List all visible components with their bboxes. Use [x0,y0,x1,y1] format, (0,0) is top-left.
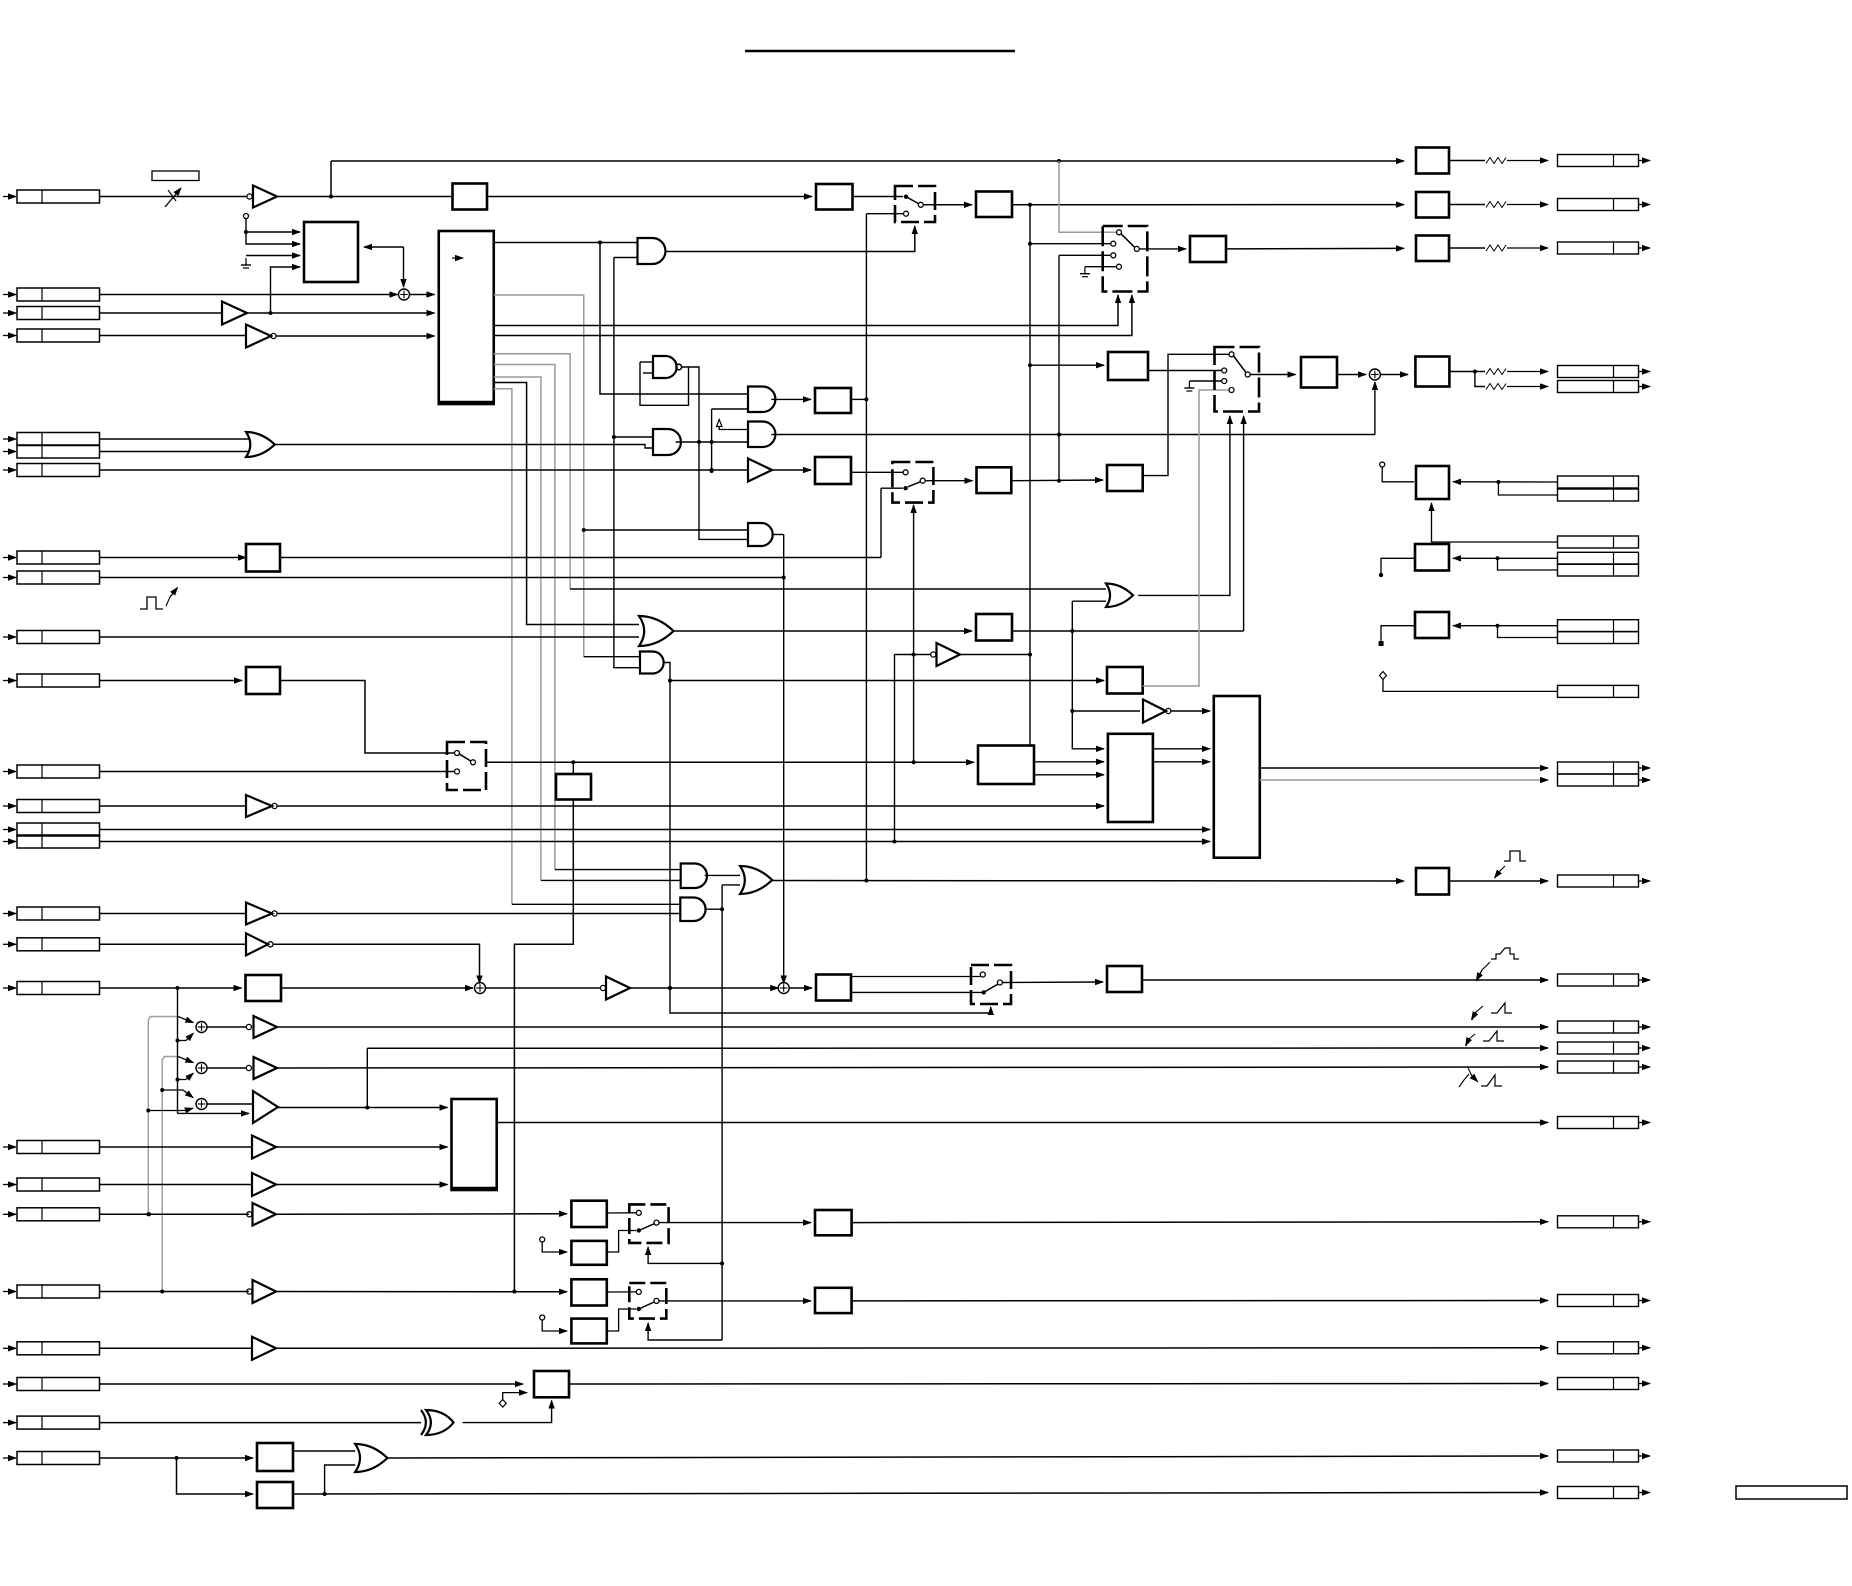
input connector IN10 [3,636,16,638]
diamond terminal J [499,1400,506,1408]
input connector IN8 [3,557,16,559]
output connector TPC3a [1558,620,1639,632]
and gate A10 [680,898,705,922]
input connector IN15 [3,841,16,843]
switch S0 p1 [455,751,460,756]
wire blockB o7 gray [494,377,541,880]
output connector O-4a [1558,366,1639,378]
box row8 [246,544,280,572]
box S1b [976,192,1012,218]
vertical S3 ctrl2 [1243,416,1245,631]
input connector IN26 [3,1457,16,1459]
wire row11 in [100,680,243,682]
gray feed 2 [162,1057,178,1292]
wire row7 in [100,469,749,471]
switch S2 common [1134,246,1139,251]
inverter I1 bubble [271,333,276,338]
buffer B23 [252,1337,276,1360]
wire row1 in [100,196,248,198]
arrow into sum1 upper [178,1017,193,1023]
output connector TPC1b [1558,489,1639,501]
wire blockB o1 [494,242,638,244]
wire row1 c [853,196,904,198]
block M1 [1108,734,1153,822]
input connector IN23 [3,1347,16,1349]
wire S2 p1 gray [1059,161,1116,232]
wire o2 branch AND5 [584,529,748,531]
diamond terminal TP4 [1380,672,1387,680]
wire TP1 stub [1382,467,1414,482]
wire F3 out [607,1291,637,1293]
gray feed 1 [148,1017,178,1215]
block B [439,231,494,404]
switch S3 p1 [1229,352,1234,357]
box OP [1416,868,1449,895]
wire o6 to A7 [555,869,681,871]
switch S2 p2 [1111,241,1116,246]
wire SW5 out [659,1300,811,1302]
wire P1 out [277,1026,1548,1028]
wire to box T [1030,364,1104,366]
inverter IP1 [254,1016,278,1038]
wire o2 to A6 [584,656,640,658]
or gate O2 [639,616,674,646]
and gate A8 [748,422,775,448]
nand N1 in2 stub [643,372,653,374]
wire o5 to OR5 [570,588,1106,590]
box G1 [815,1210,852,1235]
output connector O-2 [1558,199,1639,211]
wire row21 out [276,1213,567,1216]
wire TP2 right b [1498,558,1558,570]
clock symbol A8 [717,420,723,427]
inverter IP2 bubble [246,1065,251,1070]
wire row22 out [276,1291,567,1293]
and gate A7 [681,864,707,889]
legend box [1736,1486,1847,1499]
nand N1 out wire [682,367,748,539]
wire blockB o8 [494,383,639,625]
output connector TPC4 [1558,685,1639,697]
switch S3 p2 [1222,368,1227,373]
output connector O-bc [1558,1117,1639,1129]
wire I5 out [1171,710,1210,712]
wire row22 in [100,1291,250,1293]
switch S2 p1 [1117,230,1122,235]
switch S6 box [892,462,933,503]
wire row11 out [280,681,455,754]
wire B5 in [895,654,931,656]
switch S3 p3 [1222,379,1227,384]
vertical O2 fanout [1072,601,1104,749]
output connector O-p [1558,875,1639,887]
wire TP3 right b [1498,626,1558,638]
wire P3 to buf [207,1103,253,1105]
wire A2 out [676,441,749,443]
inverter I16 [246,903,272,925]
inverter I0 bubble [247,194,252,199]
wire OP out [1449,880,1548,882]
saw icon 2 [1483,1031,1504,1041]
switch S7 lever [984,984,998,992]
wire row2 to blockB [410,294,435,296]
wire FA out [293,1450,355,1452]
wire G1 out [852,1221,1548,1224]
output connector TPC1c [1558,536,1639,548]
wire blockB o3 [494,295,1118,326]
wire S3c branch [1475,372,1485,387]
switch SW4 box [629,1204,668,1243]
wire row10 in [100,636,640,638]
output connector TPC2a [1558,552,1639,564]
wire blockB o9 gray [494,389,512,905]
pulse icon arrow [1495,866,1505,878]
switch S0 p2 [455,769,460,774]
wire TP3 right [1453,625,1557,627]
wire row3 to blockB [247,312,435,314]
stair icon arrow [1477,962,1490,981]
wire row20 in [100,1184,253,1186]
wire F4 in [542,1320,567,1331]
output connector O-4b [1558,381,1639,393]
wire S7b out [1142,979,1548,981]
wire blockA c2 [246,231,300,233]
wire out1 b [1507,160,1548,162]
box FB [257,1482,293,1508]
wire blockB o4 [494,295,1132,336]
circle terminal F4 [540,1315,545,1320]
wire blockA c1 [246,219,300,245]
wire row19 in [100,1146,253,1148]
switch SW5 lever [639,1302,654,1309]
wire S2 out [1139,248,1186,250]
saw icon 2 arrow [1466,1034,1475,1046]
wire S2b out [1226,247,1404,250]
pulse icon right [1504,851,1526,861]
wire blockC out [497,1122,1548,1124]
sawfall icon mid [1459,1074,1469,1087]
inverter I22 bubble [247,1289,252,1294]
wire S6 out [925,480,972,482]
wire N4b out [851,471,903,473]
wire top y161 riser [330,161,332,197]
switch S0 lever [459,754,471,761]
inverter I18 bubble [600,985,605,990]
wire row12 in [100,771,455,773]
wire S2 p4 gnd [1085,266,1117,268]
wire A1 in2 stub [614,257,638,259]
wire O1 in1 [100,438,251,440]
summing node P1 [196,1022,207,1033]
input connector IN14 [3,829,16,831]
wire J out [569,1383,1548,1386]
vertical x1030 [1029,205,1031,746]
box row11 [246,667,280,694]
wire row23 out [276,1347,1548,1350]
wire G2 out [852,1300,1548,1302]
pulse icon row8 [140,597,163,609]
summing node S-A [399,289,410,300]
box S2b [1190,236,1226,262]
box J [534,1371,569,1397]
wire row18 a [281,987,473,989]
switch SW5 p2 [637,1307,641,1311]
input connector IN11 [3,680,16,682]
buffer BP3 [253,1091,278,1123]
wire TP1 right [1453,481,1557,483]
wire K out1 [1034,761,1104,763]
wire S0 out [486,761,974,763]
wire diamond stub [503,1393,527,1400]
wire row12b in [572,762,574,774]
wire row12b out [514,800,573,1292]
variable-control arrow (row1) [165,188,181,207]
vertical S6ctrl [913,505,915,762]
switch S0 common [471,760,476,765]
wire to S6 p2 [881,487,903,489]
branch into sum3 upper [162,1089,183,1091]
wire to M0 [670,680,1104,682]
output connector O-fb [1558,1487,1639,1499]
wire N3 out [851,398,866,400]
saw icon 1 [1491,1003,1512,1013]
wire SW5 control [648,1323,722,1340]
switch S6 lever [908,482,921,487]
buffer B19 [252,1136,276,1159]
input connector IN17 [3,943,16,945]
switch SW5 common [654,1298,659,1303]
inverter I17 bubble [268,942,273,947]
vertical row8 to S6 [880,488,882,557]
vertical A1-A6 link [614,258,640,668]
xor gate X1 [421,1410,426,1435]
wire F1 out [607,1212,637,1214]
box N3 [815,388,851,413]
switch S2 p4 [1117,264,1122,269]
block B mode arrow [452,257,463,259]
wire T out [1148,370,1221,372]
summing node P3 [196,1099,207,1110]
wire row16 out [277,913,680,915]
summing node P2 [196,1063,207,1074]
box row18 [246,975,282,1001]
squiggle out3 [1486,245,1506,251]
switch S3 p4 [1229,388,1234,393]
and gate A5 [748,523,773,546]
wire row18 d [789,987,812,989]
input connector IN19 [3,1146,16,1148]
arrow into sum2 upper [178,1057,193,1063]
and gate A6 [640,652,664,674]
output connector TPC3b [1558,632,1639,644]
wire row14 in [100,829,1211,831]
wire M1 out1 [1153,748,1210,750]
nand N1 in1 wire [640,361,653,363]
output connector O-o4 [1558,1450,1639,1462]
output connector O-g1 [1558,1216,1639,1228]
blockA feedback drop [403,247,405,287]
wire S3c out [1449,371,1485,373]
inverter I21 bubble [247,1212,252,1217]
wire to S1 p2 [866,213,903,215]
wire row24 in [100,1383,524,1385]
wire A7 out [705,874,740,876]
wire TP1 right b [1498,482,1557,495]
branch into sum2 lower [178,1079,187,1081]
wire X1 out [463,1401,552,1423]
input connector IN2 [3,294,16,296]
input connector IN4 [3,335,16,337]
wire row18 c [630,987,778,989]
wire row21 in [100,1213,250,1215]
blockA feedback wire [364,246,404,248]
box F1 [571,1201,606,1227]
wire out4b [1507,386,1548,388]
wire to O3 in2 [722,884,740,886]
block C [452,1099,497,1190]
wire SW4 control [648,1247,722,1263]
wire row1 a [277,196,453,198]
wire FB riser [325,1465,356,1494]
vertical N3-S1p2-OR3 [865,214,867,881]
switch S2 box [1103,226,1148,292]
box T [1108,352,1148,380]
input connector IN18 [3,987,16,989]
wire O1 in2 [100,451,251,453]
wire M0 out gray [1143,390,1229,686]
wire S2 p2 [1030,243,1111,245]
wire row20 out [276,1184,448,1186]
input connector IN16 [3,913,16,915]
wire top y161 [331,160,1404,162]
output connector O-m2 [1558,774,1639,786]
switch S1 lever [906,197,918,204]
wire blockA c4 [271,267,301,313]
wire F2 out [607,1231,637,1253]
switch SW5 p1 [636,1289,641,1294]
wire FB out [293,1493,1548,1495]
box R1b [816,184,853,210]
switch S1 common [918,202,923,207]
wire out2 b [1507,204,1548,206]
saw icon 3 [1481,1075,1502,1086]
block M2 [1214,696,1260,858]
wire row26 branch [177,1458,254,1494]
squiggle out4a [1486,369,1506,375]
or gate O1 (rows5-6) [246,432,275,457]
wire row23 in [100,1347,253,1349]
switch SW5 box [629,1283,666,1319]
saw icon 1 arrow [1472,1006,1483,1020]
inverter I5 [1143,700,1166,723]
switch S2 lever [1121,234,1135,247]
wire F2 in [542,1242,567,1252]
and gate A1 [638,238,666,264]
inverter I13 [246,795,272,817]
switch S7 box [971,965,1011,1004]
inverter B5 [937,643,961,666]
wire K out2 [1034,774,1104,776]
wire S3b out [1337,374,1366,376]
box OUT2 [1416,192,1449,218]
box Q [976,614,1012,641]
inverter I18 [606,977,630,1000]
output connector O-g2 [1558,1295,1639,1307]
wire TP1 bottom [1432,503,1558,542]
inverter I22 [253,1280,277,1303]
wire P1 to inv [207,1026,246,1028]
inverter I5 bubble [1166,708,1171,713]
wire row1048 [367,1047,1548,1049]
squiggle out2 [1486,202,1506,208]
box OUT1 [1416,148,1449,174]
wire TP2 stub [1381,558,1415,573]
output connector O-1 [1558,155,1639,167]
output connector O-s [1558,974,1639,986]
circle terminal F2 [540,1237,545,1242]
wire P1 out [1011,479,1103,482]
circle terminal blockA [244,214,249,219]
wire A10 out [704,908,722,910]
switch S1 box [895,186,935,222]
wire row16 in [100,913,247,915]
wire M2 out1 [1260,767,1548,769]
wire row13 in [100,805,247,807]
output connector O-23 [1558,1342,1639,1354]
box M0 [1107,667,1143,694]
buffer B1 [222,302,247,325]
wire S3 out [1250,374,1295,376]
wire row8 out [280,557,881,559]
wire out3 a [1449,247,1485,249]
wire out4a [1507,371,1548,373]
inverter I21 [253,1203,277,1226]
wire o9 to A10 [512,903,680,905]
output connector O-w3 [1558,1061,1639,1073]
wire S1 out [923,204,972,206]
vertical row7 fanout [711,409,713,471]
wire row1048 riser [366,1048,368,1107]
wire row26 in [100,1457,254,1459]
vertical A10 fanout [721,885,723,1340]
box L [1107,465,1143,491]
inverter B5 bubble [931,652,936,657]
label box (row1) [152,171,199,181]
wire S7 out [1002,981,1103,984]
wire blockB o2 gray [494,295,584,657]
input connector IN22 [3,1291,16,1293]
box P1 [977,467,1012,493]
vertical row18 fanout [177,988,179,1113]
output connector O-j [1558,1378,1639,1390]
wire to S7 p1 [851,976,980,978]
box TP2 [1415,544,1449,571]
switch SW4 lever [639,1224,654,1231]
input connector IN20 [3,1184,16,1186]
wire O2 out [672,630,972,632]
switch S2 p3 [1111,253,1116,258]
box F4 [571,1319,606,1344]
wire row19 out [276,1146,448,1148]
output connector O-3 [1558,242,1639,254]
ground blockA [245,258,247,265]
box TP1 [1416,466,1449,499]
switch SW4 common [654,1220,659,1225]
wire S3 p3 gnd [1189,380,1221,382]
input connector IN9 [3,577,16,579]
summing node R18b [778,983,789,994]
inverter I17 [246,933,268,955]
